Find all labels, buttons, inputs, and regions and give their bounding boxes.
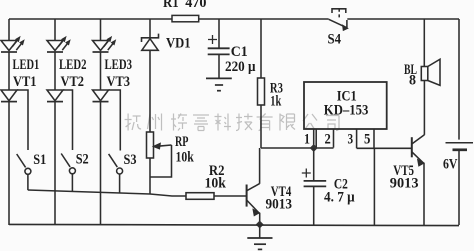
svg-text:8: 8 — [409, 73, 416, 89]
wire pin 5 to VT5 base — [357, 147, 412, 149]
branch wire to S1 — [17, 90, 28, 150]
main node wire (VT4 collector to pin 2) — [261, 147, 334, 149]
svg-text:470: 470 — [185, 0, 206, 11]
svg-text:VT1: VT1 — [13, 74, 37, 90]
LED1 — [1, 37, 24, 52]
top rail middle segment — [199, 18, 329, 20]
ground — [247, 225, 272, 249]
capacitor C2 — [302, 169, 326, 226]
resistor R1 — [172, 15, 199, 21]
collection wire to R2 — [28, 190, 186, 196]
svg-text:220 μ: 220 μ — [225, 59, 256, 75]
branch wire to S3 — [109, 90, 121, 151]
junction dot VT4 emitter — [256, 221, 264, 229]
svg-text:10k: 10k — [176, 150, 195, 166]
svg-text:10k: 10k — [205, 176, 227, 192]
transistor VT4 — [247, 148, 260, 225]
branch wire to S2 — [63, 90, 73, 150]
IC1 box — [304, 82, 387, 129]
wire R3 to node — [260, 105, 262, 148]
svg-text:9013: 9013 — [266, 197, 293, 213]
top rail left segment — [9, 18, 172, 20]
svg-text:9013: 9013 — [390, 176, 419, 192]
capacitor C1 — [208, 35, 230, 78]
resistor R2 — [186, 193, 214, 200]
LED3 column wire — [100, 19, 102, 41]
battery wire from top right corner — [458, 19, 460, 140]
zener VD1 wire from rail — [149, 19, 151, 38]
capacitor C1 wire — [218, 19, 220, 48]
junction dot pin 1 — [310, 144, 318, 152]
svg-text:LED1: LED1 — [13, 57, 40, 73]
svg-text:1k: 1k — [270, 94, 281, 110]
resistor R3 — [258, 78, 265, 105]
diode VT3 — [93, 90, 109, 102]
speaker BL — [421, 59, 440, 85]
svg-text:LED3: LED3 — [105, 57, 133, 73]
bottom rail — [9, 224, 459, 225]
LED3 — [93, 37, 116, 52]
transistor VT5 — [412, 81, 425, 226]
svg-text:S4: S4 — [328, 31, 342, 47]
wire LED2 to VT2 — [54, 52, 56, 90]
wire LED3 to VT3 — [100, 52, 102, 90]
switch S2 — [61, 154, 75, 192]
wire LED1 to VT1 — [8, 52, 10, 90]
svg-text:4. 7 μ: 4. 7 μ — [324, 190, 355, 206]
svg-text:S2: S2 — [76, 152, 89, 168]
pin 1 wire — [313, 129, 315, 148]
switch S3 — [109, 154, 123, 193]
pin 5 tab — [357, 129, 374, 148]
wire VD1 to RP — [149, 50, 151, 132]
svg-text:R1: R1 — [163, 0, 179, 11]
svg-text:S1: S1 — [33, 152, 46, 168]
diode VT2 — [47, 90, 63, 102]
wire VT3 to bottom rail — [100, 102, 102, 225]
zener VD1 — [142, 34, 159, 51]
svg-text:S3: S3 — [124, 152, 137, 168]
svg-text:RP: RP — [175, 134, 189, 150]
switch S1 — [17, 154, 31, 190]
svg-text:VT3: VT3 — [107, 74, 131, 90]
watermark 杭州将睿科技有限公司 — [125, 114, 339, 131]
switch S4 — [329, 9, 348, 30]
svg-text:5: 5 — [364, 131, 370, 147]
speaker BL wire from rail — [423, 19, 425, 67]
wire VT2 to bottom rail — [54, 102, 56, 225]
svg-text:KD–153: KD–153 — [324, 103, 369, 119]
wire pin 5 down to bottom rail — [373, 148, 375, 225]
svg-text:3: 3 — [348, 132, 354, 148]
pin 2 tab — [316, 129, 333, 148]
LED2 — [47, 37, 70, 52]
svg-text:1: 1 — [304, 132, 310, 148]
wire VT1 to bottom rail — [8, 102, 10, 225]
svg-text:LED2: LED2 — [59, 57, 87, 73]
potentiometer RP — [147, 132, 172, 194]
top rail right segment — [347, 18, 459, 20]
LED1 column wire — [8, 19, 10, 41]
capacitor C2 wire — [313, 148, 315, 181]
LED2 column wire — [54, 19, 56, 41]
svg-text:C1: C1 — [231, 44, 248, 60]
diode VT1 — [1, 90, 17, 102]
svg-text:2: 2 — [325, 132, 331, 148]
svg-text:VT2: VT2 — [61, 74, 85, 90]
svg-text:VD1: VD1 — [166, 36, 191, 52]
battery 6V — [446, 143, 474, 225]
svg-text:6V: 6V — [443, 157, 458, 173]
wire R2 to VT4 base — [214, 195, 246, 197]
ground C1 — [206, 78, 232, 90]
resistor R3 wire from rail — [260, 19, 262, 78]
